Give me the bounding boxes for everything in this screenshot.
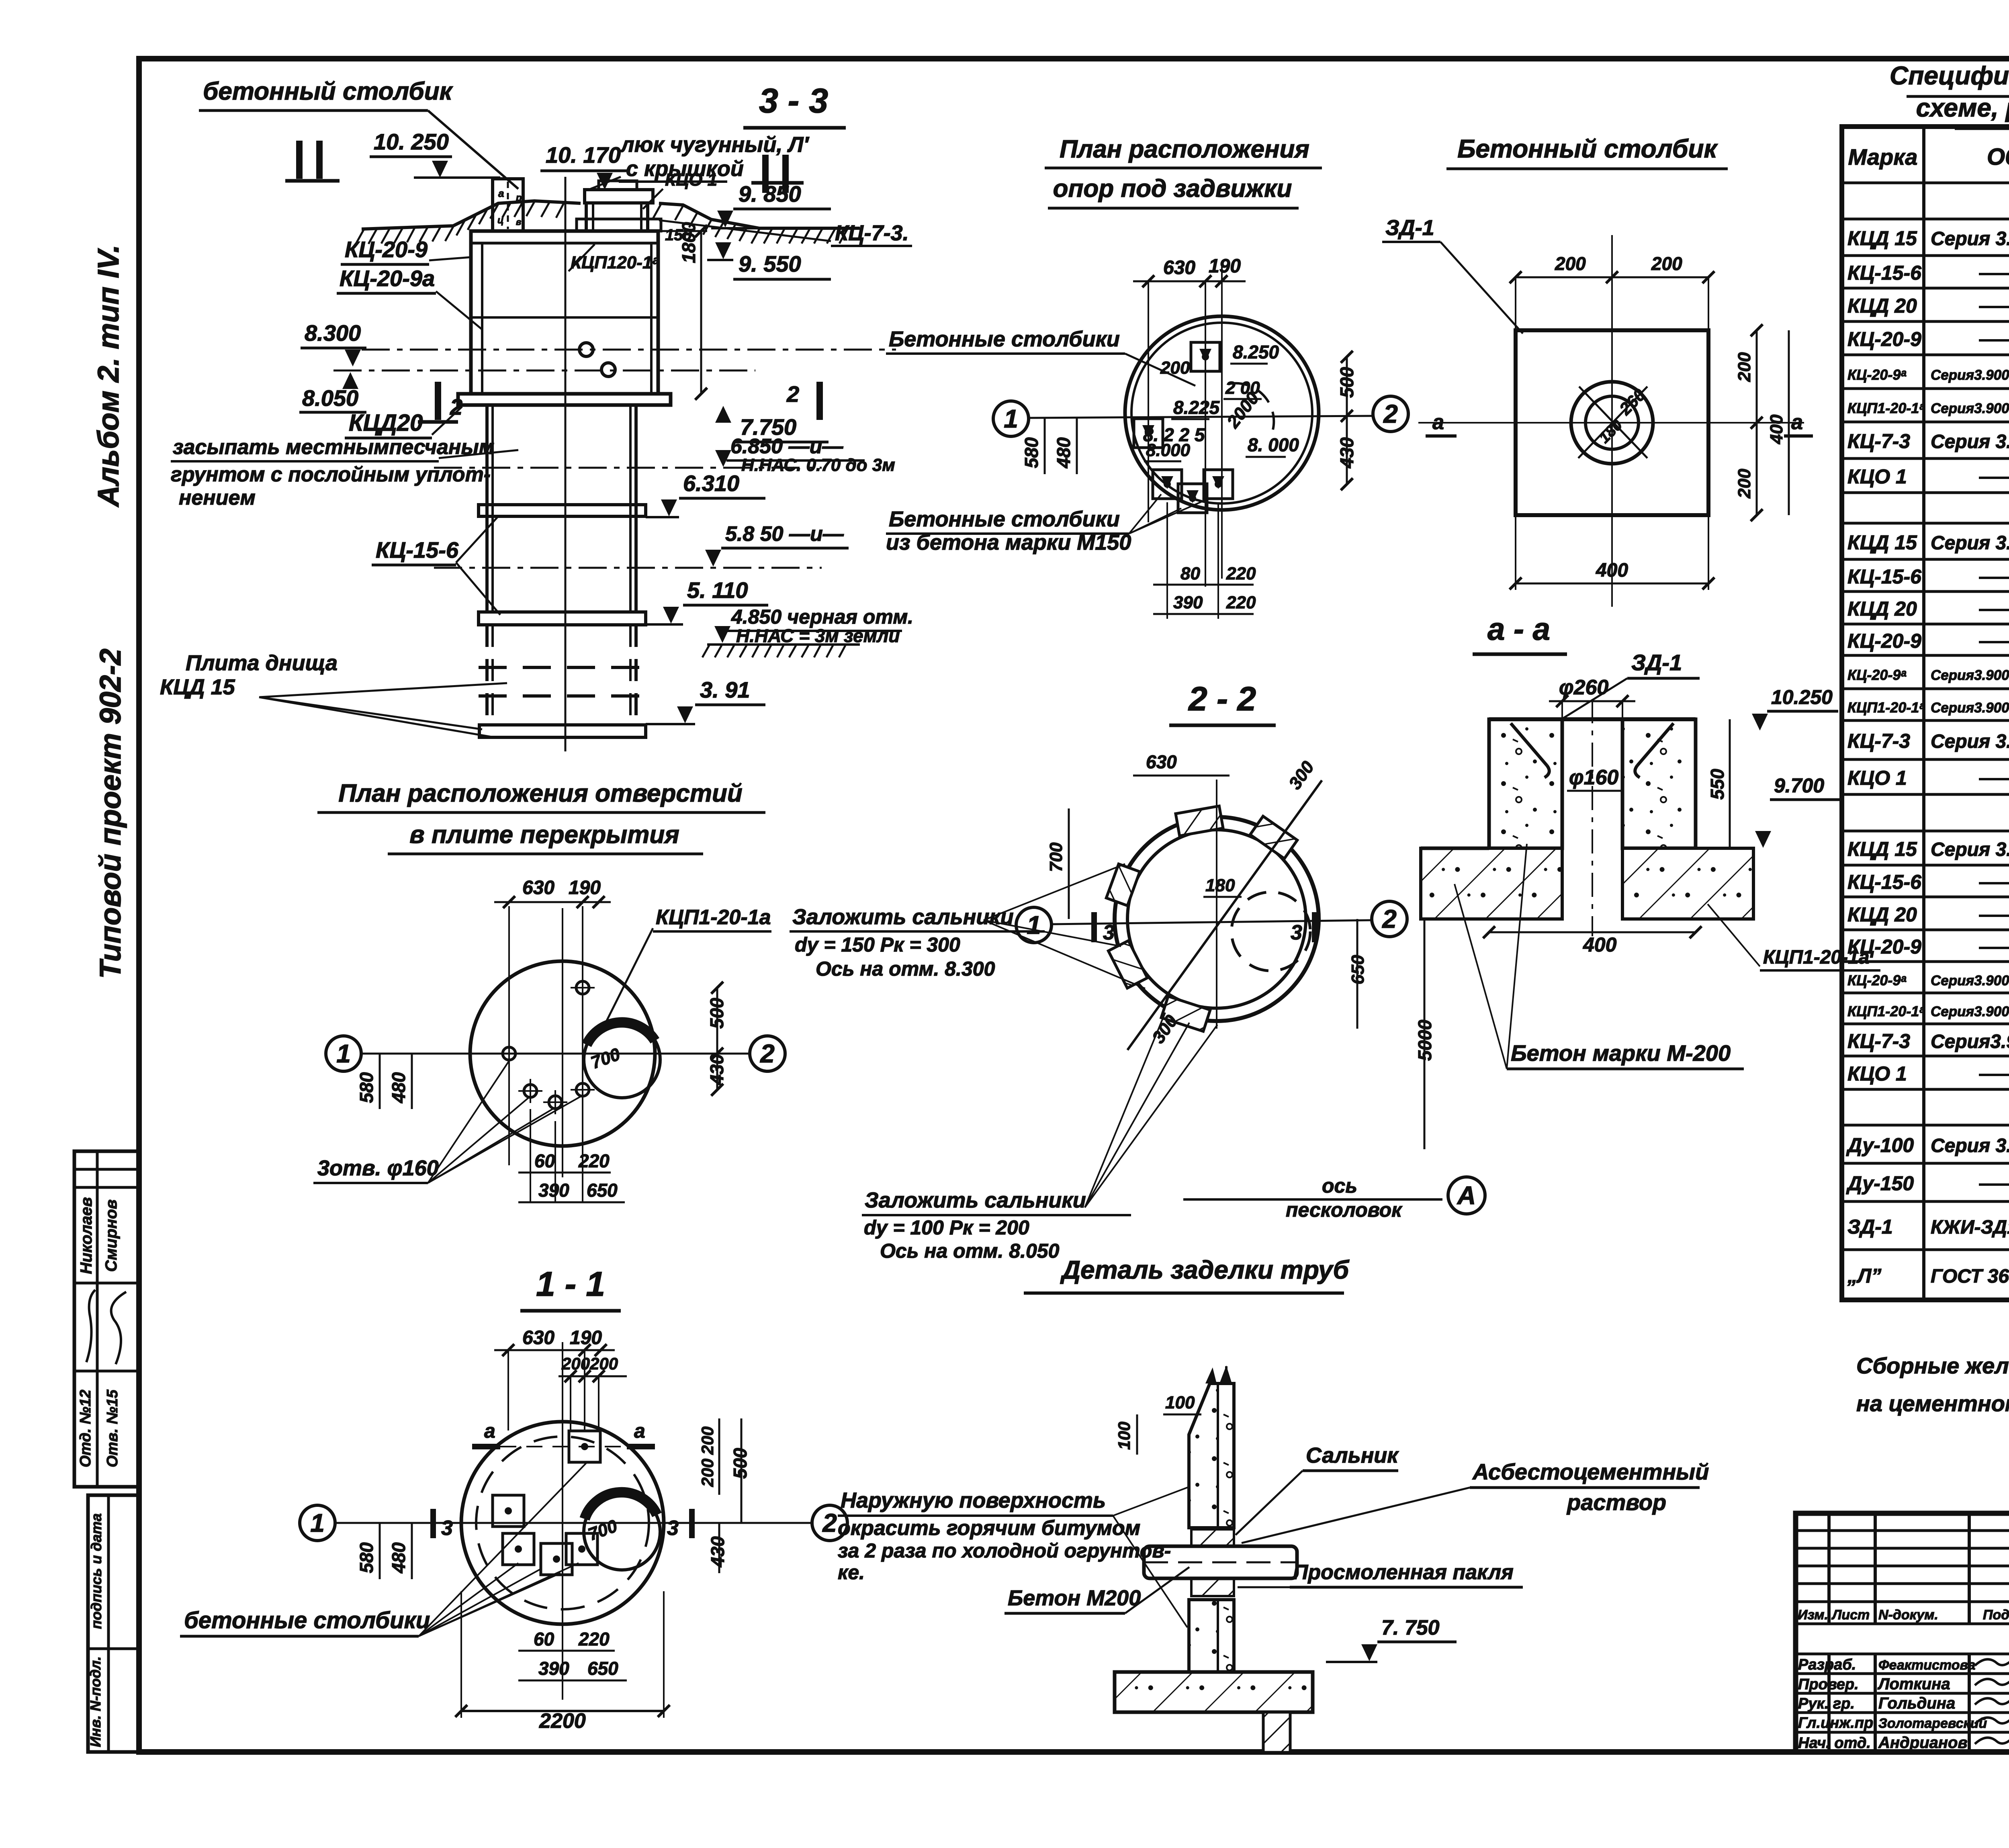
svg-text:раствор: раствор [1566,1490,1666,1515]
svg-text:а: а [484,1420,495,1442]
a-a center axis [1592,699,1593,936]
svg-text:7. 750: 7. 750 [1381,1616,1440,1639]
plan D dim 630 190 [494,877,611,908]
square dims right 200 200 400 [1735,324,1789,521]
svg-text:КЦ-20-9: КЦ-20-9 [1847,935,1921,958]
svg-text:3: 3 [1291,921,1302,944]
plan 1-1 axis line and circles [300,1505,847,1541]
plan 1-1 concrete post squares [493,1431,600,1575]
svg-text:Альбом 2. тип IV.: Альбом 2. тип IV. [92,245,125,508]
a-a elevation 10.250 [1752,686,1838,731]
svg-text:КЦ-20-9: КЦ-20-9 [1847,630,1921,652]
svg-text:КЦД 20: КЦД 20 [1847,903,1917,926]
note Заложить сальники dy150 [790,905,1045,980]
label ЗД-1 with leader [1382,216,1523,334]
svg-text:Серия3.900-3вып.7КЖИ-КЦП1-20-1: Серия3.900-3вып.7КЖИ-КЦП1-20-1ᵃ [1931,1004,2009,1019]
plan F label бетонные столбики из бетона [886,494,1209,555]
svg-text:Наружную поверхность: Наружную поверхность [841,1488,1106,1512]
svg-text:8.250: 8.250 [1233,342,1279,362]
svg-text:1: 1 [336,1039,351,1068]
a-a dim 550 [1707,719,1730,848]
svg-text:а: а [634,1420,645,1442]
label КЦП120-1а inside chamber [569,244,659,272]
svg-text:на цементном растворе: на цементном растворе М-50. [1856,1391,2009,1416]
square plan of post [1418,235,1804,607]
svg-text:КЦ-20-9: КЦ-20-9 [345,237,428,262]
svg-text:1: 1 [1004,404,1018,433]
plan F dims top 630 190 [1133,256,1246,287]
svg-text:КЦ-20-9ᵃ: КЦ-20-9ᵃ [1847,366,1906,383]
svg-text:Гл.инж.пр: Гл.инж.пр [1798,1715,1873,1731]
svg-text:Марка: Марка [1848,144,1918,170]
svg-text:390: 390 [538,1180,569,1201]
svg-text:8.225: 8.225 [1173,397,1220,418]
svg-text:Серия 3.900-3 вып. 7: Серия 3.900-3 вып. 7 [1931,228,2009,250]
plan F axis and circles 1 2 [993,396,1408,436]
svg-text:бетонные столбики: бетонные столбики [184,1607,430,1633]
svg-text:Н.НАС = 3м земли: Н.НАС = 3м земли [736,625,900,646]
title block frame [1796,1513,2009,1752]
svg-text:8.300: 8.300 [305,320,361,346]
svg-text:3 - 3: 3 - 3 [759,82,828,120]
plan D big hole circle with crescent [584,1021,660,1098]
svg-text:р: р [516,192,522,203]
svg-text:580: 580 [356,1542,377,1573]
svg-text:220: 220 [1226,593,1256,612]
svg-text:за 2 раза по холодной огрунтов: за 2 раза по холодной огрунтов- [838,1539,1171,1562]
svg-text:„Л”: „Л” [1847,1265,1881,1287]
label Бетон М200 [1004,1567,1189,1613]
svg-text:а: а [498,187,504,199]
left margin vertical text: Типовой проект 902-2 [94,649,127,979]
svg-text:10.250: 10.250 [1771,686,1833,708]
plan 1-1 center line [562,1342,563,1700]
svg-text:ГОСТ 3634-61: ГОСТ 3634-61 [1931,1266,2009,1287]
svg-text:200: 200 [1651,253,1682,274]
svg-text:180: 180 [1205,876,1235,895]
pipe axes dash-dot lower [434,468,822,568]
svg-text:650: 650 [1348,955,1368,984]
svg-text:КЦ-20-9а: КЦ-20-9а [340,266,435,291]
note Заложить сальники dy100 [862,1188,1131,1262]
svg-text:в плите перекрытия: в плите перекрытия [409,821,679,849]
label КЦ-20-9а [337,266,482,329]
svg-text:окрасить горячим битумом: окрасить горячим битумом [838,1516,1140,1540]
plan 1-1 dims left 580 480 [356,1523,412,1579]
svg-text:нением: нением [179,486,256,510]
svg-text:Инв. N-подл.: Инв. N-подл. [87,1656,104,1747]
svg-text:Сальник: Сальник [1306,1443,1399,1467]
svg-text:КЦ-7-3: КЦ-7-3 [1847,730,1910,752]
plan F bottom dims 80 220 390 220 [1153,564,1256,614]
ось песколовок label with axis A [1183,1175,1485,1221]
svg-text:Лист: Лист [1831,1607,1870,1623]
label ЗД-1 [1555,650,1700,723]
svg-text:10. 170: 10. 170 [546,142,621,168]
plan F dims right 500 430 [1336,351,1357,490]
a-a dim 400 [1483,926,1702,956]
svg-text:430: 430 [707,1536,728,1568]
svg-text:430: 430 [706,1054,727,1085]
shaft collar ring 1 [479,505,646,516]
svg-text:Типовой проект 902-2: Типовой проект 902-2 [94,649,127,979]
note засыпать местным песчаным грунтом [171,436,518,510]
svg-text:КЦ-20-9ᵃ: КЦ-20-9ᵃ [1847,972,1906,988]
2-2 leader fan from note dy100 [1085,1013,1217,1207]
label КЦО 1 [643,170,717,209]
svg-text:Николаев: Николаев [78,1197,95,1274]
pipe through wall [1144,1546,1297,1578]
svg-text:КЦД 15: КЦД 15 [1847,227,1917,250]
svg-text:Серия3.900-3вып7КЖИ-КЦ-20-9ᵃ: Серия3.900-3вып7КЖИ-КЦ-20-9ᵃ [1931,667,2009,683]
plan D bottom dims 60 220 390 650 [518,1150,625,1202]
svg-text:Серия 3.900-3 вып. 7: Серия 3.900-3 вып. 7 [1931,532,2009,554]
svg-text:подпись и дата: подпись и дата [88,1513,104,1629]
spec table grid [1842,127,2009,1300]
svg-text:Разраб.: Разраб. [1798,1656,1856,1673]
2-2 center line [1216,780,1217,1029]
svg-text:бетонный столбик: бетонный столбик [203,78,453,105]
svg-text:630: 630 [522,877,554,898]
svg-text:Смирнов: Смирнов [102,1199,120,1272]
plan 1-1 dims right 200 200 500 430 [698,1418,751,1573]
svg-text:Ду-100: Ду-100 [1846,1134,1914,1156]
svg-text:Отд. №12: Отд. №12 [77,1390,94,1467]
svg-text:из бетона марки М150: из бетона марки М150 [886,530,1131,555]
elevation 6.850 [715,435,895,475]
svg-text:КЦП1-20-1ᵃ: КЦП1-20-1ᵃ [1847,400,1925,416]
svg-text:630: 630 [1163,257,1195,278]
svg-text:2: 2 [1382,905,1397,933]
svg-text:Гольдина: Гольдина [1878,1695,1955,1712]
svg-text:190: 190 [569,877,601,898]
svg-text:200: 200 [698,1459,717,1487]
plan D center line [562,908,563,1177]
svg-text:8. 000: 8. 000 [1248,434,1299,455]
svg-text:КЦ-15-6: КЦ-15-6 [1847,565,1922,588]
svg-text:80: 80 [1180,564,1200,583]
a-a label Бетон марки М-200 [1455,844,1744,1069]
svg-text:КЦО 1: КЦО 1 [665,170,717,190]
svg-text:Серия3.900-3вып.7КЖИ-КЦ-20-9ᵃ: Серия3.900-3вып.7КЖИ-КЦ-20-9ᵃ [1931,367,2009,383]
terrain ground line with hatching [356,201,860,244]
svg-text:Заложить сальники: Заложить сальники [792,905,1014,929]
svg-text:КЦП1-20-1ᵃ: КЦП1-20-1ᵃ [1847,699,1925,716]
svg-text:КЦ-15-6: КЦ-15-6 [1847,262,1922,284]
svg-text:Бетонные столбики: Бетонные столбики [889,507,1120,531]
svg-text:700: 700 [1046,842,1066,872]
svg-text:План расположения: План расположения [1060,135,1309,163]
elevation 8.050 [299,372,366,412]
svg-text:1: 1 [1027,911,1041,939]
plan F circle [1125,316,1319,510]
svg-text:5. 110: 5. 110 [687,577,748,603]
svg-text:КЦ-15-6: КЦ-15-6 [1847,871,1922,893]
svg-text:3отв. φ160: 3отв. φ160 [317,1156,439,1180]
label Сальник [1236,1443,1399,1535]
svg-text:ЗД-1: ЗД-1 [1385,216,1434,240]
section marks 1-1 (top left pair) [285,141,340,181]
title block header row labels [1798,1607,2009,1623]
svg-text:220: 220 [578,1150,610,1171]
svg-text:dу = 100 Рк = 200: dу = 100 Рк = 200 [864,1216,1029,1239]
svg-text:КЦ-7-3.: КЦ-7-3. [835,221,909,245]
svg-text:200: 200 [1735,352,1754,382]
svg-text:500: 500 [706,998,727,1029]
svg-text:Серия 3.900-3 вып. 7: Серия 3.900-3 вып. 7 [1931,731,2009,752]
svg-text:550: 550 [1707,769,1728,800]
svg-text:КЦП1-20-1ᵃ: КЦП1-20-1ᵃ [1847,1003,1925,1019]
label КЦ-15-6 [372,516,500,615]
svg-text:Подп.: Подп. [1983,1607,2009,1623]
svg-text:190: 190 [1209,256,1241,277]
svg-text:Спецификация элементов к мар: Спецификация элементов к маркировочной [1890,61,2009,90]
svg-text:КЦД 15: КЦД 15 [1847,838,1917,860]
elevation 10.250 [370,129,500,178]
label КЦП1-20-1а [603,906,771,1029]
plan title: План расположения отверстий в плите перекрытия [317,780,765,854]
svg-text:ЗД-1: ЗД-1 [1631,650,1682,675]
svg-text:КЦ-15-6: КЦ-15-6 [376,537,459,563]
packing сальник blocks [1191,1529,1234,1596]
svg-text:220: 220 [578,1629,610,1649]
elevation 5.110 [646,577,768,624]
label Просмоленная пакля [1238,1561,1523,1587]
plan F dashed arc [1230,383,1274,434]
svg-text:5000: 5000 [1414,1019,1435,1061]
svg-text:9.700: 9.700 [1774,774,1824,797]
svg-text:схеме, расположенной на лис: схеме, расположенной на листе [1916,93,2009,122]
section 2-2 title [1169,680,1276,725]
bottom plate КЦД20 of chamber [458,394,671,405]
svg-text:10. 250: 10. 250 [374,129,449,154]
svg-text:ось: ось [1322,1175,1357,1197]
svg-text:КЦ-20-9ᵃ: КЦ-20-9ᵃ [1847,667,1906,683]
plan D vertical construction lines [509,906,583,1201]
svg-text:9. 550: 9. 550 [739,251,801,276]
svg-text:опор под задвижки: опор под задвижки [1053,175,1292,203]
plan F title: План расположения опор под задвижки [1045,135,1322,208]
svg-text:Серия 3.900-3вып.7: Серия 3.900-3вып.7 [1931,431,2009,452]
svg-text:Провер.: Провер. [1798,1676,1859,1693]
dimension 150 top right [665,226,692,244]
Бетонный столбик title [1446,134,1728,169]
elevation 8.300 [301,320,366,366]
label КЦД20 [345,407,462,438]
spec table title [1890,61,2009,129]
svg-text:580: 580 [1021,437,1042,468]
2-2 axis circles [1016,901,1407,943]
svg-text:в: в [516,217,521,227]
svg-text:Серия3.900-3вып7КЖИ-КЦП1-20-1ᵃ: Серия3.900-3вып7КЖИ-КЦП1-20-1ᵃ [1931,700,2009,716]
svg-text:Ось на отм. 8.050: Ось на отм. 8.050 [880,1240,1060,1262]
svg-text:200: 200 [1735,469,1754,499]
svg-text:песколовок: песколовок [1286,1199,1403,1221]
svg-text:А: А [1457,1181,1476,1210]
svg-text:КЦ-7-3: КЦ-7-3 [1847,430,1910,452]
label бетонный столбик with leader [199,78,518,189]
a-a cut labels left right [1426,411,1813,436]
plan 1-1 a-a cut marks [472,1420,655,1447]
spec table rows text [1846,188,2009,1287]
svg-text:200: 200 [698,1426,717,1455]
svg-text:КЦД 15: КЦД 15 [160,675,235,699]
svg-text:630: 630 [522,1327,554,1349]
label Асбестоцементный раствор [1242,1459,1709,1543]
svg-text:6.850 —и—: 6.850 —и— [730,435,843,458]
svg-text:4.850 черная отм.: 4.850 черная отм. [731,606,913,628]
section marks 2-2 [418,382,462,422]
shaft dashed rings below [479,667,646,696]
svg-text:500: 500 [1336,367,1357,398]
below slab stub [1263,1712,1290,1752]
svg-text:Бетон марки М-200: Бетон марки М-200 [1511,1040,1731,1066]
bottom plate КЦД15 [479,725,646,737]
svg-text:Ось на отм. 8.300: Ось на отм. 8.300 [816,958,995,980]
svg-text:400: 400 [1596,560,1628,581]
svg-text:2200: 2200 [539,1709,586,1733]
svg-text:1: 1 [310,1508,325,1537]
svg-text:2 - 2: 2 - 2 [1188,680,1256,718]
svg-text:КЦ-20-9: КЦ-20-9 [1847,328,1921,350]
elevation 3.91 [646,677,765,724]
svg-text:5.8 50 —и—: 5.8 50 —и— [725,522,844,546]
section marks 1-1 (top right pair) [751,155,804,193]
svg-text:N-докум.: N-докум. [1878,1607,1938,1623]
label КЦ-7-3 with leader [659,220,912,246]
svg-text:650: 650 [587,1658,618,1679]
svg-text:500: 500 [730,1448,751,1479]
svg-text:ЗД-1: ЗД-1 [1847,1216,1893,1238]
svg-text:а: а [1791,411,1803,434]
svg-text:Бетонные столбики: Бетонные столбики [889,327,1120,351]
svg-text:Серия 3.901-5: Серия 3.901-5 [1931,1135,2009,1156]
svg-text:200: 200 [1555,253,1586,274]
svg-text:Феактистова: Феактистова [1878,1658,1975,1673]
elevation 6.310 [646,471,765,517]
svg-text:Н.НАС. 0.70 до 3м: Н.НАС. 0.70 до 3м [741,455,895,475]
plan F center line [1221,265,1223,579]
svg-text:9. 850: 9. 850 [739,181,801,207]
svg-text:Заложить сальники: Заложить сальники [865,1188,1086,1212]
elevation 5.850 [705,522,849,567]
plan F vertical construction lines [1148,281,1218,619]
svg-text:Лоткина: Лоткина [1877,1675,1950,1693]
svg-text:390: 390 [538,1658,569,1679]
note сборные железобетонные изделия [1856,1353,2009,1416]
svg-text:2: 2 [786,381,799,407]
svg-text:200: 200 [1160,358,1190,378]
lower shaft walls [487,405,636,725]
bottom slab hatched [1115,1672,1313,1712]
svg-text:650: 650 [587,1180,618,1201]
деталь заделки труб title [1024,1255,1350,1293]
svg-text:КЦД 20: КЦД 20 [1847,295,1917,317]
2-2 leader fan from note dy150 [984,864,1145,988]
svg-text:100: 100 [1165,1393,1195,1412]
svg-text:а: а [1432,411,1444,434]
svg-text:а - а: а - а [1487,611,1550,647]
svg-text:60: 60 [534,1629,554,1649]
svg-text:8.000: 8.000 [1146,440,1191,460]
svg-text:засыпать местнымпесчаным: засыпать местнымпесчаным [173,436,494,459]
svg-text:6.310: 6.310 [683,471,739,496]
svg-text:ке.: ке. [838,1561,865,1584]
chamber (upper shaft) walls [471,231,658,394]
left signature boxes upper [74,1151,140,1487]
svg-text:Серия3.900-3вып.7КЖИ-КЦП1-20-1: Серия3.900-3вып.7КЖИ-КЦП1-20-1ᵃ [1931,401,2009,416]
elevation 9.550 [707,242,831,279]
svg-text:КЦД20: КЦД20 [349,410,423,436]
деталь dims 100 100 [1115,1367,1217,1455]
elevation 7.750 [715,406,829,442]
label 3отв ф160 with leaders [313,1061,583,1183]
manhole neck walls [577,203,661,231]
plan 1-1 section 3 marks [433,1509,692,1540]
a-a concrete blocks [1489,719,1696,848]
elevation 4.850 черная отм [702,606,913,657]
svg-text:Просмоленная пакля: Просмоленная пакля [1293,1561,1514,1584]
svg-text:Золотаревский: Золотаревский [1878,1716,1987,1731]
svg-text:Серия 3.900 -3 вып.7: Серия 3.900 -3 вып.7 [1931,839,2009,860]
a-a dim ф260 [1549,676,1635,719]
a-a elevation 9.700 [1755,774,1839,848]
svg-text:400: 400 [1767,414,1786,444]
svg-text:Сборные железобетонные: Сборные железобетонные изделия устанавли… [1856,1353,2009,1378]
plan D dims left 580 480 [356,1054,412,1109]
svg-text:200: 200 [561,1354,590,1373]
a-a label КЦП1-20-1а [1708,904,1880,970]
dimension 1800 vertical right of chamber [658,222,707,400]
svg-text:КЦ-7-3: КЦ-7-3 [1847,1030,1910,1052]
plan D axis line and circles 1 2 [326,1036,785,1071]
svg-text:Обозначение: Обозначение [1987,144,2009,170]
svg-text:КЦД 15: КЦД 15 [1847,531,1917,554]
svg-text:Андрианов: Андрианов [1878,1734,1968,1752]
svg-text:Нач. отд.: Нач. отд. [1798,1735,1871,1752]
svg-text:1 - 1: 1 - 1 [536,1265,605,1304]
svg-text:150: 150 [665,226,692,244]
label бетонные столбики with leaders [180,1463,587,1636]
svg-text:грунтом с послойным уплот-: грунтом с послойным уплот- [171,463,491,486]
a-a base slab hatched [1421,848,1753,919]
svg-text:КЦО 1: КЦО 1 [1847,465,1907,488]
elevation 9.850 [711,181,860,228]
svg-text:Плита днища: Плита днища [186,651,338,675]
shaft collar ring 2 [479,612,646,625]
square dims 200 200 top [1510,253,1714,330]
plan 1-1 hole circle with crescent [584,1492,660,1570]
svg-text:2: 2 [822,1508,837,1537]
svg-text:190: 190 [570,1327,602,1349]
svg-text:Серия3.900-3вып.7КЖИ-КЦ-20-9ᵃ: Серия3.900-3вып.7КЖИ-КЦ-20-9ᵃ [1931,973,2009,988]
svg-text:Асбестоцементный: Асбестоцементный [1472,1459,1709,1484]
svg-text:КЦП1-20-1а: КЦП1-20-1а [656,906,771,929]
svg-text:Деталь заделки труб: Деталь заделки труб [1060,1255,1350,1284]
2-2 collars (патрубки) [1106,806,1297,1031]
plan D outer circle [470,961,655,1146]
a-a dim ф160 [1567,766,1622,791]
svg-text:400: 400 [1583,933,1617,956]
svg-text:Бетон М200: Бетон М200 [1008,1586,1141,1610]
svg-text:КЖИ-ЗД1: КЖИ-ЗД1 [1931,1217,2009,1238]
svg-text:100: 100 [1115,1422,1133,1450]
2-2 section 3 marks [1094,912,1315,944]
left margin vertical text: Альбом 2 тип IV [92,245,125,508]
svg-text:dу = 150 Рк = 300: dу = 150 Рк = 300 [795,933,960,956]
plan 1-1 dims top 630 190 200 200 [494,1327,627,1431]
svg-text:480: 480 [388,1542,409,1574]
